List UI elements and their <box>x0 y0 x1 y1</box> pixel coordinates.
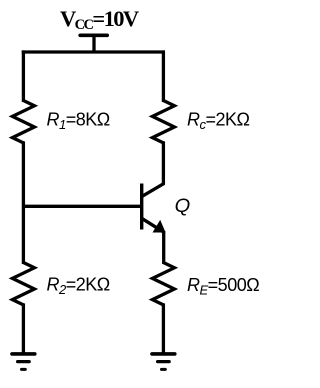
wire left middle vertical <box>22 141 25 264</box>
svg-text:R2=2KΩ: R2=2KΩ <box>47 275 110 297</box>
resistor RE <box>152 263 174 305</box>
ground right <box>152 354 175 370</box>
wire top rail <box>22 50 165 53</box>
transistor Q emitter arrow <box>153 220 166 233</box>
wire left top vertical <box>22 50 25 102</box>
resistor RC <box>152 101 174 143</box>
wire right top vertical <box>162 50 165 102</box>
resistor R2 <box>12 263 34 305</box>
transistor Q base bar <box>140 184 143 230</box>
transistor Q emitter diagonal <box>142 218 164 232</box>
wire left bottom vertical <box>22 303 25 354</box>
resistor R1 <box>12 101 34 143</box>
wire collector vertical and diagonal <box>142 141 164 196</box>
svg-text:Rc=2KΩ: Rc=2KΩ <box>187 110 250 132</box>
wire base horizontal <box>23 205 140 208</box>
svg-text:R1=8KΩ: R1=8KΩ <box>47 110 110 132</box>
wire right bottom vertical <box>162 303 165 354</box>
ground left <box>12 354 35 370</box>
wire VCC stub <box>92 35 95 52</box>
wire emitter vertical <box>162 231 165 264</box>
svg-text:Q: Q <box>175 195 191 217</box>
svg-text:RE=500Ω: RE=500Ω <box>187 275 259 297</box>
svg-text:VCC=10V: VCC=10V <box>60 6 139 33</box>
power rail VCC bar <box>80 33 107 37</box>
